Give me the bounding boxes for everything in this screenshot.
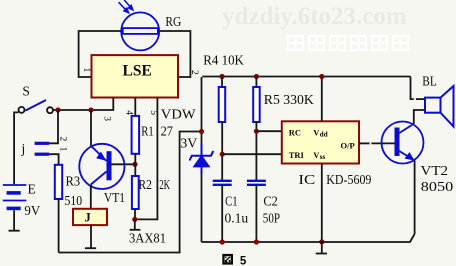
VT1 emitter arrow [96,152,106,161]
svg-text:TRI: TRI [289,150,305,160]
wire j to R3 [49,154,59,165]
svg-text:KD-5609: KD-5609 [326,172,371,187]
svg-text:3V: 3V [180,136,197,151]
wire bottom-left rail [59,132,202,253]
svg-text:C1: C1 [225,194,238,209]
svg-text:27: 27 [161,123,174,138]
node dot C1 rail [220,239,225,244]
caption 图 5 [222,254,233,265]
capacitor C1 [213,181,232,185]
zener diode VDW symbol [190,144,214,174]
svg-text:RG: RG [165,14,181,29]
svg-text:3AX81: 3AX81 [129,231,166,246]
node dot R1-R2 [132,162,137,167]
ground stub Vss [316,242,327,254]
svg-text:VT1: VT1 [104,190,125,205]
svg-text:2K: 2K [159,177,170,192]
transistor VT2 (NPN 8050) [382,122,424,164]
ground stub R2 [130,219,141,229]
IC KD-5609 box [282,121,359,163]
capacitor C2 [247,181,266,185]
svg-text:ydzdiy.6to23.com: ydzdiy.6to23.com [222,3,407,30]
node dot RC junction [254,129,259,134]
svg-text:RC: RC [289,128,301,138]
svg-text:E: E [28,182,36,197]
svg-text:IC: IC [298,173,315,188]
node dot Vdd top [319,74,324,79]
VT2 emitter arrow [405,152,415,160]
wire dot A to relay contact j [49,110,58,143]
svg-text:0.1u: 0.1u [225,211,249,226]
wire C2 bottom [255,186,257,242]
relay J bottom stub [85,225,96,248]
svg-text:510: 510 [65,193,83,208]
wire TRI lead [222,153,282,155]
node dot R5 top [254,74,259,79]
resistor R5 [255,77,257,88]
svg-text:R4 10K: R4 10K [203,53,244,68]
wire R5 bottom / C2 column [255,122,257,180]
node dot A (rail-j junction) [55,107,60,112]
svg-text:R2: R2 [138,177,152,192]
wire LSE pin5 down and left [135,98,158,220]
relay J [73,209,107,225]
svg-text:50P: 50P [263,211,280,226]
svg-text:LSE: LSE [123,62,152,79]
svg-text:5: 5 [240,255,247,266]
wire VT2 emitter down [414,161,416,235]
node dot zener top [199,129,204,134]
battery bottom stub [9,210,20,231]
op-amp block LSE U1 [92,55,179,97]
svg-text:VDW: VDW [161,106,196,121]
speaker BL [425,86,454,127]
svg-text:ss: ss [320,153,326,161]
RG light arrows [119,0,133,13]
wire LSE pin4 down [134,98,136,116]
wire C1 bottom [221,186,223,242]
wire VT2 collector to speaker [414,110,425,124]
wire Vdd up [321,77,323,122]
svg-text:S: S [22,83,30,98]
wire RG left loop [79,31,122,77]
svg-text:BL: BL [422,74,437,89]
svg-text:8050: 8050 [421,179,454,194]
svg-text:dd: dd [320,131,328,139]
wire Vss down [321,164,323,242]
wire dot B to VT1 emitter [90,110,92,146]
wire R4 bottom / C1 column [221,122,223,180]
node dot TRI junction [220,152,225,157]
svg-text:j: j [21,141,26,156]
transistor VT1 (PNP 3AX81) [79,144,124,189]
resistor R1 [132,116,140,154]
wire LSE pin3 to rail [53,98,113,111]
resistor R2 [132,176,139,209]
wire top rail right section [202,76,410,78]
wire O/P lead [359,142,370,144]
svg-text:2: 2 [189,70,199,75]
wire VT1 collector to relay J [90,185,92,209]
switch blade [25,100,46,111]
battery E 9V [3,185,27,208]
svg-text:R5 330K: R5 330K [264,92,314,107]
node dot B (rail-VT1 junction) [88,107,93,112]
svg-text:R3: R3 [66,173,81,188]
node dot R2 bottom [132,217,137,222]
wire R1 to R2 [134,154,136,176]
switch S [14,107,53,184]
wire bottom rail right section [202,234,415,242]
svg-text:C2: C2 [263,193,278,208]
wire R2 bottom [134,209,136,219]
watermark line 2 (CJK blocks) [288,36,303,50]
svg-text:4: 4 [123,110,133,115]
svg-text:VT2: VT2 [421,163,449,178]
svg-text:9V: 9V [24,203,40,218]
svg-text:3: 3 [101,116,111,121]
wire RC lead [256,130,281,132]
svg-text:J: J [85,211,91,225]
wire rail to speaker top [411,77,414,100]
svg-text:R1: R1 [141,123,154,138]
node dot C2 rail [254,239,259,244]
VT1 base lead [112,163,136,165]
photoresistor RG [121,12,159,50]
resistor R3 [55,165,62,199]
zener diode VDW column [201,77,203,242]
resistor R4 [221,77,223,88]
node dot Vss rail [319,239,324,244]
svg-text:2: 2 [57,137,67,142]
wire R3 to bottom rail [58,199,60,253]
svg-text:1: 1 [57,147,67,152]
wire RG right loop [159,31,190,77]
svg-text:O/P: O/P [341,141,355,151]
relay contact j [35,143,49,154]
svg-text:1: 1 [81,68,91,73]
node dot R4 top [219,74,224,79]
